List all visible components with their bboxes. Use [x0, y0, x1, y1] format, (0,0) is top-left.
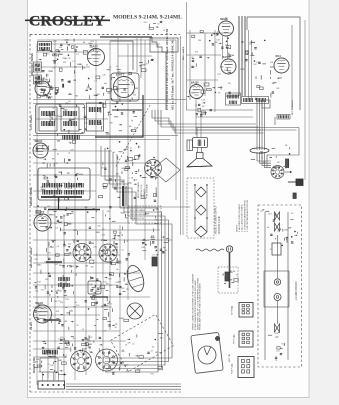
dark cylinder [286, 159, 289, 168]
svg-text:6BA6: 6BA6 [63, 57, 68, 60]
svg-text:C4: C4 [135, 180, 137, 182]
speaker leads up [197, 112, 201, 138]
tube V4 12AT7b [111, 73, 139, 101]
cluster top-left A [42, 39, 79, 57]
wire v14 [119, 225, 121, 370]
svg-text:C4: C4 [119, 232, 121, 234]
svg-text:680: 680 [75, 246, 78, 248]
label left edge 2 [30, 247, 33, 268]
ant coil stack [34, 62, 42, 84]
svg-text:6BA6: 6BA6 [78, 173, 83, 176]
wire h2 [33, 103, 176, 105]
svg-text:100: 100 [103, 282, 106, 284]
tube V10 ratio det [124, 263, 147, 293]
electrolytic dark [152, 257, 157, 266]
svg-text:33: 33 [99, 253, 101, 255]
connector P2 [234, 331, 253, 347]
svg-text:1ST IF TRANS.: 1ST IF TRANS. [30, 114, 33, 130]
wire h20 [33, 284, 118, 286]
cluster tr2 [191, 60, 231, 93]
wire v8 [157, 44, 159, 230]
svg-text:.01: .01 [113, 152, 116, 154]
heater bowtie 2 [275, 324, 280, 332]
svg-text:680: 680 [228, 72, 231, 74]
cluster ps [260, 210, 297, 241]
svg-text:680: 680 [121, 168, 124, 170]
cluster mixer [67, 58, 91, 96]
labels connectors [232, 306, 236, 374]
svg-text:.01: .01 [150, 351, 153, 353]
cluster below models [144, 21, 168, 32]
svg-text:.02: .02 [291, 213, 294, 215]
svg-text:220: 220 [63, 62, 66, 64]
label audio chassis [215, 205, 221, 234]
svg-text:.02: .02 [71, 213, 74, 215]
cluster mid6 [105, 269, 130, 291]
svg-text:33: 33 [163, 30, 165, 32]
coil below IF [63, 135, 79, 140]
wire h21 [33, 306, 112, 308]
svg-text:33: 33 [68, 58, 70, 60]
tube V1 12AT7 [88, 45, 105, 66]
wire h16 [33, 190, 96, 192]
svg-text:100: 100 [91, 267, 94, 269]
wire h9 [33, 296, 150, 298]
svg-text:2.2: 2.2 [46, 219, 49, 221]
label left edge 3 [31, 321, 33, 330]
svg-text:100: 100 [97, 226, 100, 228]
svg-text:100: 100 [275, 333, 278, 335]
cluster strip bottom [268, 333, 285, 361]
svg-text:.001: .001 [34, 215, 38, 217]
socket S5 [96, 349, 118, 371]
svg-text:CHASSIS 9-214F: CHASSIS 9-214F [218, 215, 221, 234]
svg-text:6BA6: 6BA6 [65, 102, 70, 105]
svg-text:680: 680 [137, 369, 140, 371]
cluster mid5 [101, 229, 130, 264]
svg-text:R12: R12 [35, 259, 38, 261]
svg-text:1M: 1M [55, 115, 58, 117]
wire v12 [85, 206, 87, 375]
svg-text:1M: 1M [202, 106, 205, 108]
label intermediate frequency [165, 28, 175, 110]
svg-text:.01: .01 [68, 153, 71, 155]
stepped bus bundle A to loops [152, 110, 264, 133]
label radio det trans [31, 53, 34, 76]
svg-text:.05: .05 [116, 66, 119, 68]
tuner chassis dashed border [30, 35, 181, 393]
svg-text:MODELS 9-214M, 9-214ML: MODELS 9-214M, 9-214ML [113, 15, 182, 21]
V5 V6 leads [223, 36, 228, 60]
svg-text:6BA6: 6BA6 [59, 53, 64, 56]
svg-text:1M: 1M [45, 79, 48, 81]
svg-text:.02: .02 [114, 327, 117, 329]
audio rails [194, 184, 208, 232]
cluster mid1 [109, 72, 138, 103]
svg-text:.01: .01 [47, 364, 50, 366]
text cluster mid-bottom [142, 239, 168, 252]
svg-text:DIAL LAMPS: DIAL LAMPS [182, 46, 185, 60]
cluster if area [47, 101, 87, 136]
cluster v3 area [36, 140, 76, 168]
wire h15 [33, 174, 100, 176]
svg-text:R12: R12 [217, 74, 220, 76]
cluster am conv [121, 155, 158, 179]
wire v10 [47, 210, 49, 378]
wire h13 [36, 118, 108, 120]
svg-text:2. ALL CAPACITORS IN MFD: 2. ALL CAPACITORS IN MFD [241, 204, 244, 232]
svg-text:2.2: 2.2 [54, 223, 57, 225]
svg-text:220: 220 [76, 305, 79, 307]
interlock cluster [223, 270, 238, 283]
svg-text:220: 220 [106, 180, 109, 182]
svg-text:1M: 1M [40, 308, 43, 310]
cluster text mid [141, 193, 159, 232]
svg-text:220: 220 [70, 149, 73, 151]
svg-text:1M: 1M [270, 62, 273, 64]
svg-text:WHT/RED: WHT/RED [232, 306, 234, 315]
svg-text:1M: 1M [60, 302, 63, 304]
svg-text:1M: 1M [63, 215, 66, 217]
svg-text:.001: .001 [276, 88, 280, 90]
label dial lamps [182, 46, 185, 60]
svg-text:220: 220 [84, 122, 87, 124]
svg-text:.02: .02 [81, 329, 84, 331]
svg-text:4. S.W. SHOWN IN AM POSITION: 4. S.W. SHOWN IN AM POSITION [246, 200, 249, 232]
cluster midbottom [142, 236, 169, 257]
svg-text:C4: C4 [146, 240, 148, 242]
motor M1 [127, 303, 143, 319]
cluster tr3 [240, 40, 266, 69]
svg-text:100: 100 [156, 161, 159, 163]
tube V2 6BA6 [35, 77, 50, 96]
svg-text:220: 220 [162, 237, 165, 239]
ac cable wavy [196, 249, 224, 251]
heater hatch small [277, 115, 290, 120]
svg-text:6.8: 6.8 [101, 240, 104, 242]
svg-text:6BA6: 6BA6 [94, 47, 99, 50]
socket S1 [145, 160, 162, 177]
svg-text:680: 680 [59, 291, 62, 293]
wire into audio box [160, 206, 190, 208]
svg-text:470: 470 [60, 337, 63, 339]
label left edge 1 [30, 114, 33, 130]
wire verticals right of tuner [181, 36, 184, 235]
cluster v1 area [35, 57, 68, 98]
models title [113, 15, 182, 21]
svg-text:6.8: 6.8 [82, 67, 85, 69]
wire v11 [63, 214, 65, 372]
wire h23 [33, 340, 126, 342]
speaker terminal row [242, 97, 269, 104]
svg-text:2.2: 2.2 [76, 54, 79, 56]
svg-text:.02: .02 [38, 372, 41, 374]
svg-text:.02: .02 [126, 241, 129, 243]
wire h1 [33, 99, 186, 101]
svg-text:220: 220 [93, 246, 96, 248]
svg-text:1M: 1M [277, 162, 280, 164]
svg-text:R12: R12 [150, 373, 153, 375]
wire h10 [33, 330, 120, 332]
svg-text:220: 220 [68, 243, 71, 245]
svg-text:680: 680 [59, 265, 62, 267]
wire v1 [36, 44, 38, 385]
svg-text:.05: .05 [126, 147, 129, 149]
svg-text:6BA6: 6BA6 [120, 212, 125, 215]
connector P1 [232, 303, 253, 318]
wire h5 [33, 162, 150, 164]
svg-text:RECORD RADIO: RECORD RADIO [137, 181, 140, 198]
svg-text:1M: 1M [89, 351, 92, 353]
cluster l5 [34, 273, 76, 303]
svg-text:IN RADIO POS.: IN RADIO POS. [130, 217, 145, 220]
svg-text:R12: R12 [54, 163, 57, 165]
cluster left col2 [34, 356, 66, 376]
wire h19 [33, 262, 110, 264]
svg-text:.001: .001 [268, 214, 272, 216]
tube V9 fm det [34, 301, 52, 323]
svg-text:470: 470 [117, 96, 120, 98]
svg-text:.02: .02 [225, 45, 228, 47]
svg-text:470: 470 [41, 289, 44, 291]
wire h11 [36, 51, 92, 53]
wire h7 [33, 239, 172, 241]
svg-text:S.W. VOLUME: S.W. VOLUME [147, 184, 149, 198]
cluster bottom2 [121, 333, 163, 356]
pilot lamp 1 [274, 279, 280, 285]
svg-text:6BA6: 6BA6 [46, 86, 51, 89]
svg-text:.02: .02 [124, 365, 127, 367]
svg-text:470: 470 [107, 211, 110, 213]
tube V3 6BE6 [33, 139, 48, 158]
svg-text:6BA6: 6BA6 [83, 252, 88, 255]
svg-text:455 kc. FM Band: 10.7 mc. MO: 455 kc. FM Band: 10.7 mc. MODELS 9-214M,… [171, 38, 175, 110]
connector P3 [232, 357, 254, 378]
svg-text:R12: R12 [160, 338, 163, 340]
cluster strip mid [281, 229, 297, 246]
svg-text:.001: .001 [36, 359, 40, 361]
dial diagonal [115, 105, 150, 168]
svg-text:1M: 1M [44, 262, 47, 264]
wire h25 [33, 356, 66, 358]
changer dashed box [218, 267, 238, 293]
svg-text:9-214M CHASSIS: 9-214M CHASSIS [295, 281, 298, 300]
wire h8 [33, 272, 140, 274]
IF can T1 [39, 107, 57, 131]
svg-text:C4: C4 [277, 167, 279, 169]
svg-text:2.2: 2.2 [130, 148, 133, 150]
svg-text:2.2: 2.2 [72, 61, 75, 63]
svg-text:220: 220 [228, 83, 231, 85]
socket arrow [285, 171, 292, 173]
staircase top [152, 37, 166, 110]
svg-text:.001: .001 [69, 120, 73, 122]
svg-text:680: 680 [110, 123, 113, 125]
cluster osc [34, 205, 77, 235]
svg-text:6BA6: 6BA6 [37, 263, 42, 266]
svg-text:.02: .02 [191, 57, 194, 59]
cluster under coil [60, 329, 106, 352]
svg-text:RECORD RADIO: RECORD RADIO [130, 209, 146, 212]
svg-text:100: 100 [277, 231, 280, 233]
top right frame [247, 17, 305, 180]
cluster tr4 [253, 62, 282, 100]
cluster tr1 [191, 30, 234, 59]
changer diamond [110, 314, 173, 371]
svg-text:6.8: 6.8 [104, 330, 107, 332]
svg-text:.02: .02 [109, 285, 112, 287]
svg-text:680: 680 [263, 162, 266, 164]
terminal strip [38, 372, 66, 389]
cluster top-left B [83, 41, 98, 54]
volume shaft [123, 186, 126, 206]
label rec chassis [291, 100, 298, 300]
svg-text:.01: .01 [111, 361, 114, 363]
osc coil box [38, 42, 52, 51]
svg-text:.01: .01 [152, 255, 155, 257]
tube V8 osc [34, 210, 51, 231]
lamp loop rect [264, 271, 289, 307]
svg-text:.01: .01 [165, 30, 168, 32]
svg-text:1M: 1M [233, 271, 236, 273]
label record player [192, 273, 202, 330]
svg-text:220: 220 [260, 210, 263, 212]
svg-text:.02: .02 [236, 274, 239, 276]
svg-text:3. VOLTAGES MEASURED WITH: 3. VOLTAGES MEASURED WITH [243, 200, 246, 232]
wire h12 [33, 66, 90, 68]
svg-text:220: 220 [52, 68, 55, 70]
svg-text:100: 100 [72, 239, 75, 241]
record radio switch box [128, 206, 161, 223]
audio chassis dashed box [187, 178, 214, 238]
svg-text:680: 680 [47, 320, 50, 322]
wafer bar 3 [44, 319, 60, 321]
record player [191, 332, 223, 373]
heavy L wire [95, 95, 143, 137]
rec chassis dashed border [258, 205, 302, 367]
svg-text:2.2: 2.2 [43, 309, 46, 311]
svg-text:.02: .02 [76, 325, 79, 327]
wire v2 [54, 40, 56, 380]
svg-text:R12: R12 [55, 264, 58, 266]
svg-text:.01: .01 [74, 302, 77, 304]
svg-text:6BA6: 6BA6 [87, 339, 92, 342]
svg-text:PWR PLUG: PWR PLUG [232, 364, 234, 374]
output transformer [226, 93, 241, 105]
svg-text:470: 470 [65, 123, 68, 125]
svg-text:AM ANT. TRANS.: AM ANT. TRANS. [30, 186, 33, 206]
svg-text:6X4: 6X4 [276, 54, 282, 58]
svg-text:220: 220 [249, 44, 252, 46]
label am ant trans [30, 186, 33, 206]
plug fuse dark [293, 193, 296, 199]
right loop pair [196, 117, 299, 167]
speaker plug dark [288, 179, 303, 186]
svg-text:FROM LAMP TO LEFT SIDE OF MOTO: FROM LAMP TO LEFT SIDE OF MOTOR BOARD [199, 283, 202, 330]
cluster det [35, 240, 79, 274]
svg-text:680: 680 [64, 321, 67, 323]
svg-text:470: 470 [58, 189, 61, 191]
cluster band sw [40, 172, 82, 202]
IF can T3 [87, 103, 104, 131]
svg-text:1M: 1M [102, 229, 105, 231]
svg-text:100: 100 [276, 350, 279, 352]
svg-text:220: 220 [49, 117, 52, 119]
svg-text:470: 470 [133, 95, 136, 97]
svg-text:.02: .02 [36, 81, 39, 83]
cluster bottom1 [42, 336, 93, 362]
switch wafer bars [41, 197, 100, 210]
svg-text:.01: .01 [125, 345, 128, 347]
speaker cone [187, 153, 212, 167]
ac plug [226, 246, 232, 288]
wire h3 [33, 135, 178, 137]
svg-text:.02: .02 [109, 75, 112, 77]
svg-text:.01: .01 [164, 250, 167, 252]
svg-text:2.2: 2.2 [64, 355, 67, 357]
svg-text:.01: .01 [53, 215, 56, 217]
wires top right [186, 30, 240, 135]
svg-text:.02: .02 [126, 218, 129, 220]
pilot lamp 2 [274, 294, 281, 301]
cluster osc2 [54, 290, 67, 303]
cable clamp [250, 148, 269, 153]
svg-text:220: 220 [224, 70, 227, 72]
svg-text:.01: .01 [114, 185, 117, 187]
tube V5 6BA6 2nd IF [219, 17, 234, 36]
svg-text:.01: .01 [43, 175, 46, 177]
wire v6 [127, 44, 129, 300]
svg-text:1M: 1M [106, 99, 109, 101]
mid loop verticals [118, 38, 152, 78]
svg-text:.02: .02 [52, 108, 55, 110]
svg-text:6BE6: 6BE6 [35, 139, 43, 143]
coil L6 [40, 350, 58, 372]
right bundle verticals [257, 100, 265, 150]
cluster mid4 [84, 207, 128, 237]
wire right loop top [110, 38, 133, 100]
tube V7 6AQ5 [190, 81, 204, 99]
speaker transformer [187, 138, 208, 153]
text column mid [137, 181, 158, 198]
wire v13 [102, 210, 104, 372]
tube V6 6AT6 [221, 55, 236, 74]
heater resistor [270, 243, 281, 255]
svg-text:.001: .001 [34, 362, 38, 364]
svg-text:6.8: 6.8 [86, 345, 89, 347]
right top small box [262, 100, 270, 108]
wafer bar 4 [90, 296, 108, 298]
wire h6 [33, 206, 160, 208]
IF can border [36, 104, 85, 134]
svg-text:680: 680 [284, 229, 287, 231]
svg-text:R12: R12 [73, 118, 76, 120]
svg-text:6BA6: 6BA6 [141, 195, 146, 198]
svg-text:6.8: 6.8 [73, 338, 76, 340]
svg-text:C4: C4 [132, 343, 134, 345]
svg-text:.02: .02 [90, 337, 93, 339]
svg-text:.01: .01 [72, 266, 75, 268]
socket S2 [73, 244, 91, 262]
cluster under V1 [88, 66, 121, 99]
svg-text:CROSLEY: CROSLEY [29, 14, 105, 30]
socket S3 [99, 244, 117, 262]
wire v3 [74, 44, 76, 380]
cluster ratio [90, 276, 125, 301]
svg-text:1. ALL RESISTORS 1/2 WATT: 1. ALL RESISTORS 1/2 WATT [238, 203, 241, 232]
cluster tr5 [251, 145, 291, 169]
socket S6 speaker plug [271, 166, 284, 179]
